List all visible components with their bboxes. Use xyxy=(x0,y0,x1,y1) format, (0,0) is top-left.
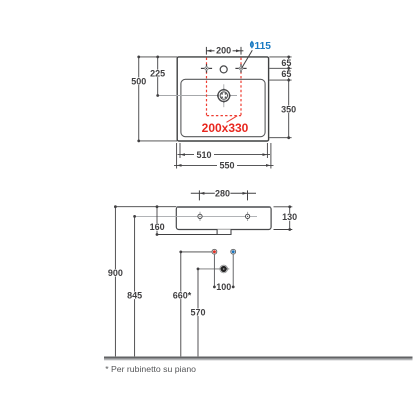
red dashed cutout rect 200x330 xyxy=(207,58,242,116)
hot water point (red) xyxy=(212,249,217,254)
drain (plan) crosshair arms xyxy=(223,84,225,107)
leader line to tap hole xyxy=(242,50,253,68)
bottom dim 550 xyxy=(174,143,274,169)
svg-text:100: 100 xyxy=(216,282,231,292)
svg-text:160: 160 xyxy=(150,222,165,232)
floor line dark xyxy=(104,357,413,359)
drain tail xyxy=(217,229,231,234)
plan view inner bowl rounded rect xyxy=(181,79,265,136)
dim 200 (tap spacing) xyxy=(206,47,243,55)
svg-text:500: 500 xyxy=(131,76,146,86)
horizontal centerline through drain xyxy=(158,95,237,97)
svg-text:200: 200 xyxy=(216,45,231,55)
dim 845 xyxy=(134,216,136,356)
svg-text:130: 130 xyxy=(282,212,297,222)
svg-text:900: 900 xyxy=(108,268,123,278)
dim 130 xyxy=(274,207,293,230)
bottom dim 510 xyxy=(178,143,271,158)
front tap centerline xyxy=(136,215,258,217)
dim 280 xyxy=(191,190,256,200)
overflow hole xyxy=(220,66,227,73)
dim 570 xyxy=(198,268,229,270)
left dim 225 xyxy=(157,57,159,96)
dim 900 xyxy=(115,206,176,208)
drain (plan) circles xyxy=(218,90,230,102)
dim 100 xyxy=(213,286,216,289)
tap hole crosshair right xyxy=(235,64,246,72)
svg-text:350: 350 xyxy=(281,104,296,114)
svg-text:200x330: 200x330 xyxy=(202,121,249,135)
left dim 500 xyxy=(139,57,177,141)
floor line light xyxy=(104,359,413,361)
svg-text:* Per rubinetto su piano: * Per rubinetto su piano xyxy=(105,364,196,374)
cold water point (blue) xyxy=(231,249,236,254)
svg-text:550: 550 xyxy=(219,161,234,171)
diameter 115 label (blue) xyxy=(251,41,254,48)
svg-text:65: 65 xyxy=(281,58,291,68)
right side dims 65/65/350 xyxy=(269,57,291,138)
plan view outer square (basin 550x500) xyxy=(177,57,268,141)
waste drain (front, filled) xyxy=(220,265,228,273)
svg-text:510: 510 xyxy=(196,150,211,160)
tap hole crosshair left xyxy=(201,64,212,72)
front view top rim thick line xyxy=(177,206,271,208)
front tap hole left xyxy=(199,212,201,221)
red leader line xyxy=(227,116,238,123)
svg-text:65: 65 xyxy=(281,69,291,79)
front tap hole right xyxy=(247,212,249,221)
svg-text:660*: 660* xyxy=(173,291,192,301)
svg-text:225: 225 xyxy=(150,69,165,79)
dim 660* xyxy=(181,251,212,253)
svg-text:280: 280 xyxy=(215,189,230,199)
svg-text:115: 115 xyxy=(255,41,272,52)
svg-text:845: 845 xyxy=(127,291,142,301)
svg-text:570: 570 xyxy=(190,308,205,318)
front view basin rect xyxy=(176,207,271,230)
dim 160 xyxy=(156,207,158,235)
